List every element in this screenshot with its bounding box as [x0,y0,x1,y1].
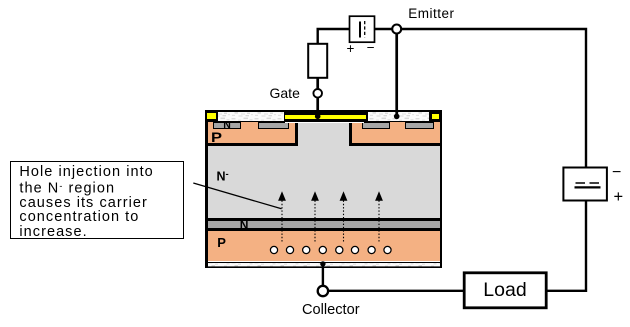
hole flow arrow 3 [340,191,348,243]
DC source plus sign [614,189,624,206]
wire: emitter node to DC source [401,29,586,168]
line above collector metal [208,262,440,264]
left P-well [208,121,298,146]
device bottom border [205,266,442,268]
gate battery plus plate [359,22,361,38]
hole flow arrow 2 [311,191,319,243]
gate battery minus sign [367,41,375,55]
hole flow arrow 1 [278,191,286,243]
N+ source strip L2 [258,122,289,129]
gate battery box [350,16,375,42]
collector metal speckle [208,263,440,266]
left gate poly yellow pad [207,113,216,119]
callout leader line [193,183,281,209]
label N- drift [217,170,229,183]
gate oxide white strip [285,122,364,124]
wire: emitter node down to emitter metal [395,33,398,117]
wire: DC source to load [547,200,586,291]
wire: collector contact to collector node [322,264,324,287]
wire: gate battery to emitter node [374,28,392,30]
label P well [211,130,222,144]
N+ source strip L1 [213,122,241,129]
emitter metal left speckle [218,112,284,121]
device right border [440,110,442,268]
collector node circle [318,286,328,296]
label N+ source [223,120,231,131]
gate battery plus sign [347,42,355,56]
collector metal layer [208,263,440,266]
label Emitter [408,7,454,21]
right P-well [349,121,440,146]
gate terminal circle [313,89,322,98]
label Gate [270,86,300,100]
N buffer layer [208,221,440,228]
label Collector [302,303,360,318]
wire: resistor top to gate battery [318,29,350,44]
label Load [464,281,546,301]
emitter node circle [392,25,401,34]
label P collector [217,236,226,249]
hole carriers (white circles) [270,246,391,253]
IGBT device: N- drift region [208,121,440,219]
load box [464,273,546,308]
N+ source strip R1 [362,122,390,129]
label N buffer [240,219,249,231]
hole flow arrow 4 [375,191,383,243]
P+ collector layer [208,231,440,261]
DC source box [563,168,607,201]
resistor R (gate series) [308,44,327,78]
gate polysilicon yellow stripe [285,115,366,119]
device left border [205,110,208,268]
collector contact dot [320,261,325,266]
callout box [10,161,184,239]
wire: load to collector node [329,290,466,292]
DC source minus sign [612,164,621,182]
N buffer layer black top line [208,218,440,221]
DC source solid plate [575,186,601,188]
gate contact dot [315,114,321,120]
right gate poly yellow pad [432,114,439,119]
N/P boundary black line [208,228,440,231]
top electrode black band [205,110,442,122]
gate battery minus plate (dashed) [364,21,366,38]
wire: resistor to gate terminal [316,77,319,89]
emitter metal right (speckled) [368,112,429,121]
wire: gate terminal to gate electrode [316,98,319,118]
DC source dashed plate [576,182,600,184]
emitter metal right speckle [368,112,429,121]
emitter contact dot [394,114,400,120]
N+ source strip R2 [405,122,434,129]
emitter metal left (speckled) [218,112,284,121]
